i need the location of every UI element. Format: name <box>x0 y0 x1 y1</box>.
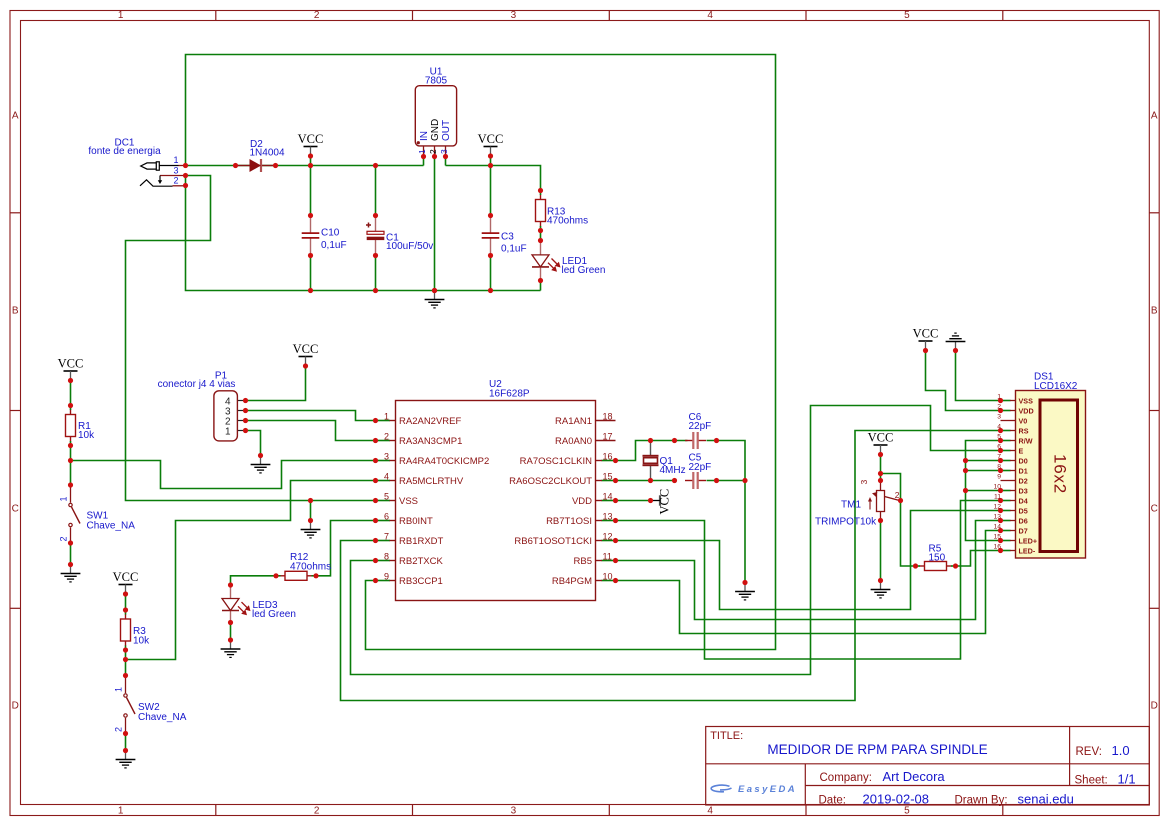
svg-text:VCC: VCC <box>868 431 894 445</box>
svg-text:2: 2 <box>314 805 320 816</box>
svg-text:VSS: VSS <box>1019 396 1034 405</box>
svg-text:VCC: VCC <box>293 342 319 356</box>
svg-text:3: 3 <box>511 805 517 816</box>
svg-text:5: 5 <box>904 805 910 816</box>
svg-text:3: 3 <box>511 10 517 21</box>
svg-text:RB7T1OSI: RB7T1OSI <box>546 516 592 527</box>
svg-text:LED+: LED+ <box>1019 536 1038 545</box>
svg-text:12: 12 <box>993 504 1001 511</box>
svg-text:D5: D5 <box>1019 506 1028 515</box>
svg-text:22pF: 22pF <box>689 421 712 432</box>
svg-text:10k: 10k <box>133 636 150 647</box>
svg-text:3: 3 <box>384 452 389 462</box>
svg-text:R/W: R/W <box>1019 436 1033 445</box>
svg-text:RB3CCP1: RB3CCP1 <box>399 576 443 587</box>
svg-text:1: 1 <box>225 427 231 438</box>
svg-text:D: D <box>12 701 19 712</box>
svg-text:D1: D1 <box>1019 466 1028 475</box>
svg-text:led Green: led Green <box>252 609 296 620</box>
svg-text:1: 1 <box>118 805 124 816</box>
svg-text:22pF: 22pF <box>689 462 712 473</box>
svg-text:RS: RS <box>1019 426 1029 435</box>
svg-text:RA1AN1: RA1AN1 <box>555 416 592 427</box>
svg-text:10k: 10k <box>78 430 95 441</box>
svg-text:C: C <box>1151 503 1158 514</box>
svg-text:VCC: VCC <box>58 357 84 371</box>
svg-text:5: 5 <box>384 492 389 502</box>
svg-text:VCC: VCC <box>113 570 139 584</box>
svg-text:16F628P: 16F628P <box>489 389 530 400</box>
svg-text:RA7OSC1CLKIN: RA7OSC1CLKIN <box>520 456 592 467</box>
svg-text:2019-02-08: 2019-02-08 <box>863 792 930 807</box>
svg-text:RA5MCLRTHV: RA5MCLRTHV <box>399 476 464 487</box>
svg-text:RB0INT: RB0INT <box>399 516 433 527</box>
svg-text:C: C <box>12 503 19 514</box>
svg-text:RB6T1OSOT1CKI: RB6T1OSOT1CKI <box>514 536 592 547</box>
svg-text:0,1uF: 0,1uF <box>501 244 527 255</box>
svg-text:11: 11 <box>994 494 1001 501</box>
svg-text:4MHz: 4MHz <box>660 465 686 476</box>
svg-text:MEDIDOR DE RPM PARA SPINDLE: MEDIDOR DE RPM PARA SPINDLE <box>767 742 987 757</box>
svg-text:RB4PGM: RB4PGM <box>552 576 592 587</box>
svg-text:470ohms: 470ohms <box>290 562 331 573</box>
svg-text:6: 6 <box>997 444 1001 451</box>
svg-text:EasyEDA: EasyEDA <box>738 784 797 795</box>
svg-text:3: 3 <box>997 414 1001 421</box>
svg-text:3: 3 <box>439 149 449 154</box>
svg-text:TRIMPOT10k: TRIMPOT10k <box>815 517 877 528</box>
svg-text:B: B <box>1151 306 1158 317</box>
svg-text:1: 1 <box>173 155 178 165</box>
svg-text:18: 18 <box>603 412 613 422</box>
svg-text:conector j4 4 vias: conector j4 4 vias <box>158 379 236 390</box>
svg-text:D: D <box>1151 701 1158 712</box>
svg-text:16x2: 16x2 <box>1051 454 1070 494</box>
svg-text:2: 2 <box>59 536 69 541</box>
svg-text:GND: GND <box>430 119 441 141</box>
svg-text:D7: D7 <box>1019 526 1028 535</box>
svg-text:6: 6 <box>384 512 389 522</box>
svg-text:D4: D4 <box>1019 496 1028 505</box>
svg-text:10: 10 <box>993 484 1001 491</box>
svg-text:4: 4 <box>384 472 389 482</box>
svg-text:Chave_NA: Chave_NA <box>138 712 187 723</box>
svg-text:2: 2 <box>997 404 1001 411</box>
svg-text:led Green: led Green <box>562 265 606 276</box>
svg-text:2: 2 <box>314 10 320 21</box>
svg-text:100uF/50v: 100uF/50v <box>386 241 433 252</box>
svg-text:14: 14 <box>993 524 1001 531</box>
svg-text:8: 8 <box>997 464 1001 471</box>
svg-text:1/1: 1/1 <box>1118 772 1136 787</box>
svg-text:A: A <box>1151 111 1158 122</box>
svg-text:TM1: TM1 <box>841 500 861 511</box>
svg-text:3: 3 <box>173 166 178 176</box>
svg-text:16: 16 <box>993 544 1001 551</box>
svg-text:RB1RXDT: RB1RXDT <box>399 536 444 547</box>
svg-text:RA0AN0: RA0AN0 <box>555 436 592 447</box>
svg-text:VDD: VDD <box>572 496 592 507</box>
svg-text:LED-: LED- <box>1019 546 1036 555</box>
svg-text:Date:: Date: <box>819 795 847 807</box>
svg-text:IN: IN <box>419 131 430 141</box>
svg-text:150: 150 <box>929 553 946 564</box>
svg-text:10: 10 <box>603 572 613 582</box>
svg-text:B: B <box>12 306 19 317</box>
svg-text:7: 7 <box>997 454 1001 461</box>
svg-text:REV:: REV: <box>1076 746 1102 758</box>
svg-text:Company:: Company: <box>820 772 872 784</box>
svg-text:fonte de energia: fonte de energia <box>88 146 161 157</box>
svg-text:VCC: VCC <box>478 132 504 146</box>
svg-text:1: 1 <box>384 412 389 422</box>
svg-text:13: 13 <box>603 512 613 522</box>
svg-text:Chave_NA: Chave_NA <box>87 521 136 532</box>
svg-text:D0: D0 <box>1019 456 1028 465</box>
svg-text:RA6OSC2CLKOUT: RA6OSC2CLKOUT <box>509 476 592 487</box>
svg-text:8: 8 <box>384 552 389 562</box>
svg-text:4: 4 <box>707 10 713 21</box>
svg-text:15: 15 <box>603 472 613 482</box>
svg-text:11: 11 <box>603 552 612 562</box>
svg-text:2: 2 <box>895 490 900 500</box>
svg-text:OUT: OUT <box>441 120 452 141</box>
svg-text:2: 2 <box>428 149 438 154</box>
svg-text:VCC: VCC <box>298 132 324 146</box>
svg-text:D3: D3 <box>1019 486 1028 495</box>
svg-text:TITLE:: TITLE: <box>710 730 743 742</box>
svg-text:2: 2 <box>384 432 389 442</box>
svg-text:RB5: RB5 <box>574 556 592 567</box>
svg-text:1.0: 1.0 <box>1112 743 1130 758</box>
svg-text:5: 5 <box>904 10 910 21</box>
svg-text:0,1uF: 0,1uF <box>321 240 347 251</box>
svg-text:A: A <box>12 111 19 122</box>
svg-text:RA3AN3CMP1: RA3AN3CMP1 <box>399 436 462 447</box>
svg-text:4: 4 <box>997 424 1001 431</box>
svg-text:9: 9 <box>384 572 389 582</box>
svg-text:2: 2 <box>114 727 124 732</box>
svg-text:Drawn By:: Drawn By: <box>955 795 1008 807</box>
svg-text:12: 12 <box>603 532 613 542</box>
svg-text:15: 15 <box>993 534 1001 541</box>
svg-text:D2: D2 <box>1019 476 1028 485</box>
svg-text:2: 2 <box>173 176 178 186</box>
svg-text:E: E <box>1019 446 1024 455</box>
svg-text:LCD16X2: LCD16X2 <box>1034 381 1078 392</box>
svg-text:4: 4 <box>707 805 713 816</box>
svg-text:1: 1 <box>417 149 427 154</box>
svg-text:470ohms: 470ohms <box>547 216 588 227</box>
svg-text:1: 1 <box>997 394 1001 401</box>
svg-text:14: 14 <box>603 492 613 502</box>
svg-text:5: 5 <box>997 434 1001 441</box>
svg-text:VDD: VDD <box>1019 406 1034 415</box>
svg-text:1: 1 <box>114 687 124 692</box>
svg-text:17: 17 <box>603 432 613 442</box>
svg-text:Art Decora: Art Decora <box>883 769 946 784</box>
svg-text:Sheet:: Sheet: <box>1075 775 1108 787</box>
svg-text:1: 1 <box>59 496 69 501</box>
svg-text:16: 16 <box>603 452 613 462</box>
svg-text:7805: 7805 <box>425 76 448 87</box>
svg-text:VCC: VCC <box>658 489 672 515</box>
svg-text:RA4RA4T0CKICMP2: RA4RA4T0CKICMP2 <box>399 456 489 467</box>
svg-text:C10: C10 <box>321 228 340 239</box>
svg-text:1: 1 <box>118 10 124 21</box>
svg-text:VCC: VCC <box>913 327 939 341</box>
svg-text:V0: V0 <box>1019 416 1028 425</box>
svg-text:7: 7 <box>384 532 389 542</box>
svg-text:D6: D6 <box>1019 516 1028 525</box>
svg-text:C3: C3 <box>501 232 514 243</box>
svg-text:VSS: VSS <box>399 496 418 507</box>
svg-text:13: 13 <box>993 514 1001 521</box>
svg-text:RA2AN2VREF: RA2AN2VREF <box>399 416 461 427</box>
svg-text:9: 9 <box>997 474 1001 481</box>
svg-text:3: 3 <box>859 480 869 485</box>
svg-text:RB2TXCK: RB2TXCK <box>399 556 443 567</box>
svg-text:senai.edu: senai.edu <box>1018 792 1074 807</box>
svg-text:1N4004: 1N4004 <box>250 148 285 159</box>
